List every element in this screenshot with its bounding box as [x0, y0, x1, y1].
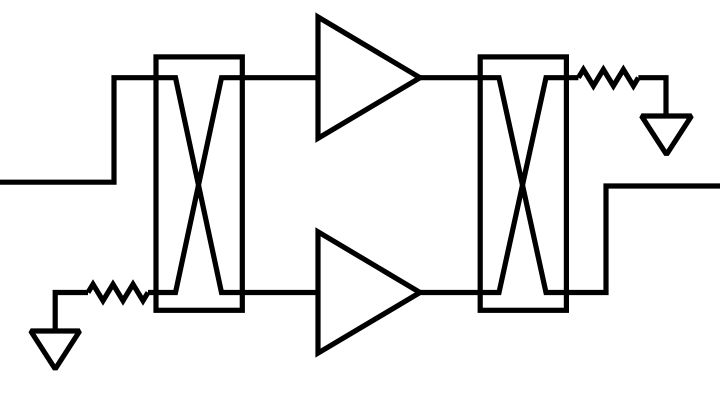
hybrid coupler X2 box	[480, 57, 566, 310]
wire input port through coupler X1 cross to amplifier A2 input	[0, 78, 318, 293]
amplifier A2 (bottom)	[318, 232, 420, 353]
wire R2 to ground corner	[638, 78, 666, 116]
wire resistor R1 port through coupler X1 cross to amplifier A1 input	[148, 78, 318, 293]
resistor R2 (termination)	[578, 70, 638, 86]
wire A1 output through coupler X2 cross to output port	[420, 78, 720, 293]
resistor R1 (termination)	[88, 284, 148, 300]
wire A2 output through coupler X2 cross to resistor R2	[420, 78, 578, 293]
ground (top right)	[642, 116, 692, 155]
hybrid coupler X1 box	[156, 57, 242, 310]
wire R1 to ground corner	[55, 293, 88, 332]
ground (bottom left)	[31, 331, 80, 369]
amplifier A1 (top)	[318, 17, 420, 138]
